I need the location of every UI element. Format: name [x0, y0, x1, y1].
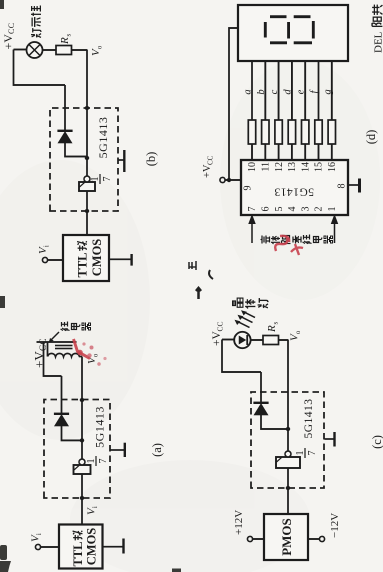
- input terminal Vi, circuit a: [35, 544, 40, 549]
- wire pin12 to resistor, circuit d: [278, 144, 280, 160]
- scan edge artifacts: [0, 0, 181, 572]
- svg-text:4: 4: [287, 207, 298, 212]
- wire driver output to Vo corner, circuit b: [85, 50, 89, 176]
- svg-text:TTL: TTL: [76, 252, 90, 277]
- svg-text:−12V: −12V: [329, 513, 341, 538]
- label LED lamp (3 chars), circuit c: [233, 298, 268, 308]
- svg-text:(b): (b): [144, 152, 158, 167]
- wire resistor to display segment a, circuit d: [251, 61, 253, 120]
- label Rs, circuit b: [59, 34, 73, 46]
- logic gate box U2 (TTL or CMOS), circuit a: [59, 525, 103, 569]
- wire driver output to junction, circuit a: [80, 357, 84, 459]
- wire resistor to display segment g, circuit d: [331, 61, 333, 120]
- +Vcc rail, circuit a: [37, 342, 77, 376]
- label Vi terminal, circuit a: [30, 533, 44, 542]
- svg-text:7: 7: [98, 459, 109, 464]
- svg-text:5G1413: 5G1413: [96, 117, 110, 159]
- svg-text:2: 2: [314, 207, 325, 212]
- svg-text:DEL: DEL: [373, 31, 383, 53]
- svg-text:CC: CC: [207, 155, 215, 165]
- svg-text:b: b: [256, 89, 267, 94]
- svg-text:13: 13: [287, 162, 298, 172]
- wire pin16 to resistor, circuit d: [331, 144, 333, 160]
- svg-text:TTL: TTL: [71, 541, 85, 566]
- svg-text:3: 3: [300, 207, 311, 212]
- red ink scrawl, circuit d: [275, 236, 303, 255]
- label +Vcc, circuit d: [202, 155, 215, 178]
- svg-text:12: 12: [274, 162, 285, 172]
- svg-text:(a): (a): [150, 443, 164, 457]
- ground pin 8, circuit d: [349, 179, 360, 193]
- pin numbers 10-16, circuit d: [247, 162, 338, 172]
- resistor R6, circuit d: [315, 120, 322, 144]
- wire PMOS box to driver, circuit c: [286, 468, 290, 514]
- svg-text:9: 9: [243, 186, 254, 191]
- flyback diode D3, circuit c: [253, 372, 288, 429]
- svg-text:5: 5: [274, 207, 285, 212]
- label from counter-decoder vertical column, circuit d: [261, 235, 333, 245]
- resistor Rs, circuit b: [43, 46, 88, 55]
- wire pin14 to resistor, circuit d: [304, 144, 306, 160]
- svg-text:o: o: [97, 45, 104, 49]
- label Rs, circuit c: [266, 322, 280, 334]
- input terminal Vi, circuit b: [42, 257, 47, 262]
- wire resistor to display segment d, circuit d: [291, 61, 293, 120]
- ground pin8 on dashed box, circuit a: [111, 443, 125, 457]
- driver element 1/7 of 5G1413, circuit b: [79, 176, 95, 191]
- LED lamp, circuit c: [222, 332, 251, 348]
- resistor R7, circuit d: [328, 120, 335, 144]
- resistor R3, circuit d: [275, 120, 282, 144]
- label indicator lamp (zhishideng), circuit b: [31, 6, 41, 38]
- svg-text:CC: CC: [38, 338, 48, 351]
- svg-text:g: g: [322, 89, 333, 94]
- svg-text:i: i: [92, 506, 99, 508]
- wire resistor to display segment b, circuit d: [264, 61, 266, 120]
- +Vcc rail, circuit c: [222, 340, 261, 373]
- label +Vcc, circuit a: [32, 338, 49, 368]
- node Vo label, circuit b: [90, 45, 104, 56]
- svg-text:7: 7: [247, 207, 258, 212]
- PMOS logic box, circuit c: [264, 514, 308, 560]
- handwritten dark marks between circuits: [189, 261, 213, 299]
- svg-text:+V: +V: [211, 331, 223, 346]
- wire pin11 to resistor, circuit d: [264, 144, 266, 160]
- driver element 1/7 of 5G1413, circuit a: [74, 459, 91, 474]
- svg-text:a: a: [243, 89, 254, 94]
- fraction 1/7 label, circuit a: [86, 456, 109, 466]
- svg-text:5G1413: 5G1413: [274, 186, 314, 198]
- svg-text:7: 7: [307, 451, 318, 456]
- relay coil L1, circuit a: [48, 342, 83, 357]
- svg-text:11: 11: [261, 162, 272, 172]
- resistor R2, circuit d: [262, 120, 269, 144]
- fraction 1/7 label, circuit c: [295, 448, 318, 458]
- svg-text:CMOS: CMOS: [90, 239, 104, 277]
- node Vo label, circuit a: [86, 353, 100, 364]
- svg-text:(d): (d): [364, 130, 378, 145]
- svg-text:s: s: [272, 322, 280, 325]
- flyback diode D1, circuit a: [54, 376, 82, 440]
- svg-text:CC: CC: [7, 23, 16, 34]
- svg-text:o: o: [93, 353, 100, 357]
- svg-text:s: s: [65, 34, 73, 37]
- LED light arrows, circuit c: [236, 311, 256, 328]
- label Vi on driver input wire, circuit a: [86, 506, 100, 515]
- dashed IC boundary box 5G1413, circuit b: [50, 108, 118, 211]
- svg-text:16: 16: [327, 162, 338, 172]
- svg-text:d: d: [282, 89, 293, 95]
- logic gate box U3 (TTL or CMOS), circuit b: [63, 235, 109, 281]
- ground pin8 on dashed box, circuit b: [119, 150, 125, 172]
- IC chip 5G1413 box, circuit d: [241, 160, 348, 215]
- svg-text:R: R: [266, 325, 278, 333]
- svg-text:5G1413: 5G1413: [303, 398, 315, 438]
- label common anode LED, circuit d: [372, 5, 383, 53]
- driver element 1/7 of 5G1413, circuit c: [276, 451, 300, 468]
- svg-text:CMOS: CMOS: [85, 528, 99, 566]
- arrow from relay label to coil, circuit a: [49, 332, 59, 342]
- 7-segment LED display box, circuit d: [238, 5, 348, 61]
- svg-text:8: 8: [337, 184, 348, 189]
- svg-text:R: R: [59, 37, 71, 45]
- wire input to box, circuit b: [48, 259, 63, 261]
- wire pin13 to resistor, circuit d: [291, 144, 293, 160]
- svg-text:10: 10: [247, 162, 258, 172]
- svg-text:i: i: [44, 245, 51, 247]
- ground of logic box, circuit b: [110, 254, 132, 266]
- wire resistor to display segment c, circuit d: [278, 61, 280, 120]
- svg-text:5G1413: 5G1413: [93, 406, 107, 448]
- +12V terminal, circuit c: [247, 536, 264, 541]
- label Vi terminal, circuit b: [37, 245, 51, 254]
- svg-text:7: 7: [102, 177, 113, 182]
- svg-text:(c): (c): [370, 435, 383, 449]
- svg-text:15: 15: [314, 162, 325, 172]
- input arrows into pins 7 and 1, circuit d: [249, 216, 338, 244]
- svg-text:+V: +V: [1, 34, 15, 50]
- wire logic box to driver input, circuit a: [80, 474, 84, 525]
- flyback diode D2, circuit b: [57, 85, 87, 157]
- svg-text:PMOS: PMOS: [279, 518, 294, 556]
- wire logic box to driver, circuit b: [85, 191, 89, 235]
- svg-text:+12V: +12V: [233, 510, 245, 535]
- label +Vcc, circuit b: [1, 23, 16, 50]
- wire input to box, circuit a: [41, 546, 59, 548]
- indicator lamp (circle-X), circuit b: [14, 42, 43, 58]
- wire driver output to Vo corner, circuit c: [286, 340, 290, 451]
- resistor R4, circuit d: [288, 120, 295, 144]
- dashed IC boundary box 5G1413, circuit c: [251, 392, 324, 488]
- fraction 1/7 label, circuit b: [90, 174, 113, 184]
- svg-text:6: 6: [261, 207, 272, 212]
- +Vcc rail, circuit b: [14, 50, 66, 86]
- dashed IC boundary box 5G1413, circuit a: [44, 400, 110, 499]
- 7-segment digit 8, circuit d: [265, 17, 313, 43]
- resistor R1, circuit d: [248, 120, 255, 144]
- label +Vcc, circuit c: [211, 321, 225, 346]
- red ink marks, circuit a: [74, 339, 107, 366]
- svg-text:+V: +V: [202, 164, 213, 178]
- svg-text:o: o: [295, 330, 302, 334]
- ground of logic box, circuit a: [103, 539, 124, 554]
- wire pin10 to resistor, circuit d: [251, 144, 253, 160]
- ground pin8 on dashed box, circuit c: [325, 432, 335, 447]
- svg-text:1: 1: [327, 207, 338, 212]
- svg-text:e: e: [296, 89, 307, 94]
- node Vo label, circuit c: [289, 330, 303, 341]
- wire resistor to display segment e, circuit d: [304, 61, 306, 120]
- resistor R5, circuit d: [302, 120, 309, 144]
- svg-text:CC: CC: [216, 321, 225, 331]
- pin numbers 7-1, circuit d: [247, 207, 338, 212]
- svg-text:14: 14: [300, 162, 311, 172]
- common anode wire display to +Vcc, circuit d: [229, 28, 238, 180]
- svg-text:+V: +V: [32, 351, 47, 368]
- pin 9 +Vcc terminal, circuit d: [220, 177, 241, 182]
- svg-text:c: c: [269, 89, 280, 94]
- label relay (jidianqi) vertical, circuit a: [61, 322, 91, 331]
- resistor Rs, circuit c: [251, 336, 288, 345]
- wire pin15 to resistor, circuit d: [318, 144, 320, 160]
- svg-text:i: i: [36, 533, 43, 535]
- wire resistor to display segment f, circuit d: [318, 61, 320, 120]
- -12V terminal, circuit c: [308, 536, 325, 541]
